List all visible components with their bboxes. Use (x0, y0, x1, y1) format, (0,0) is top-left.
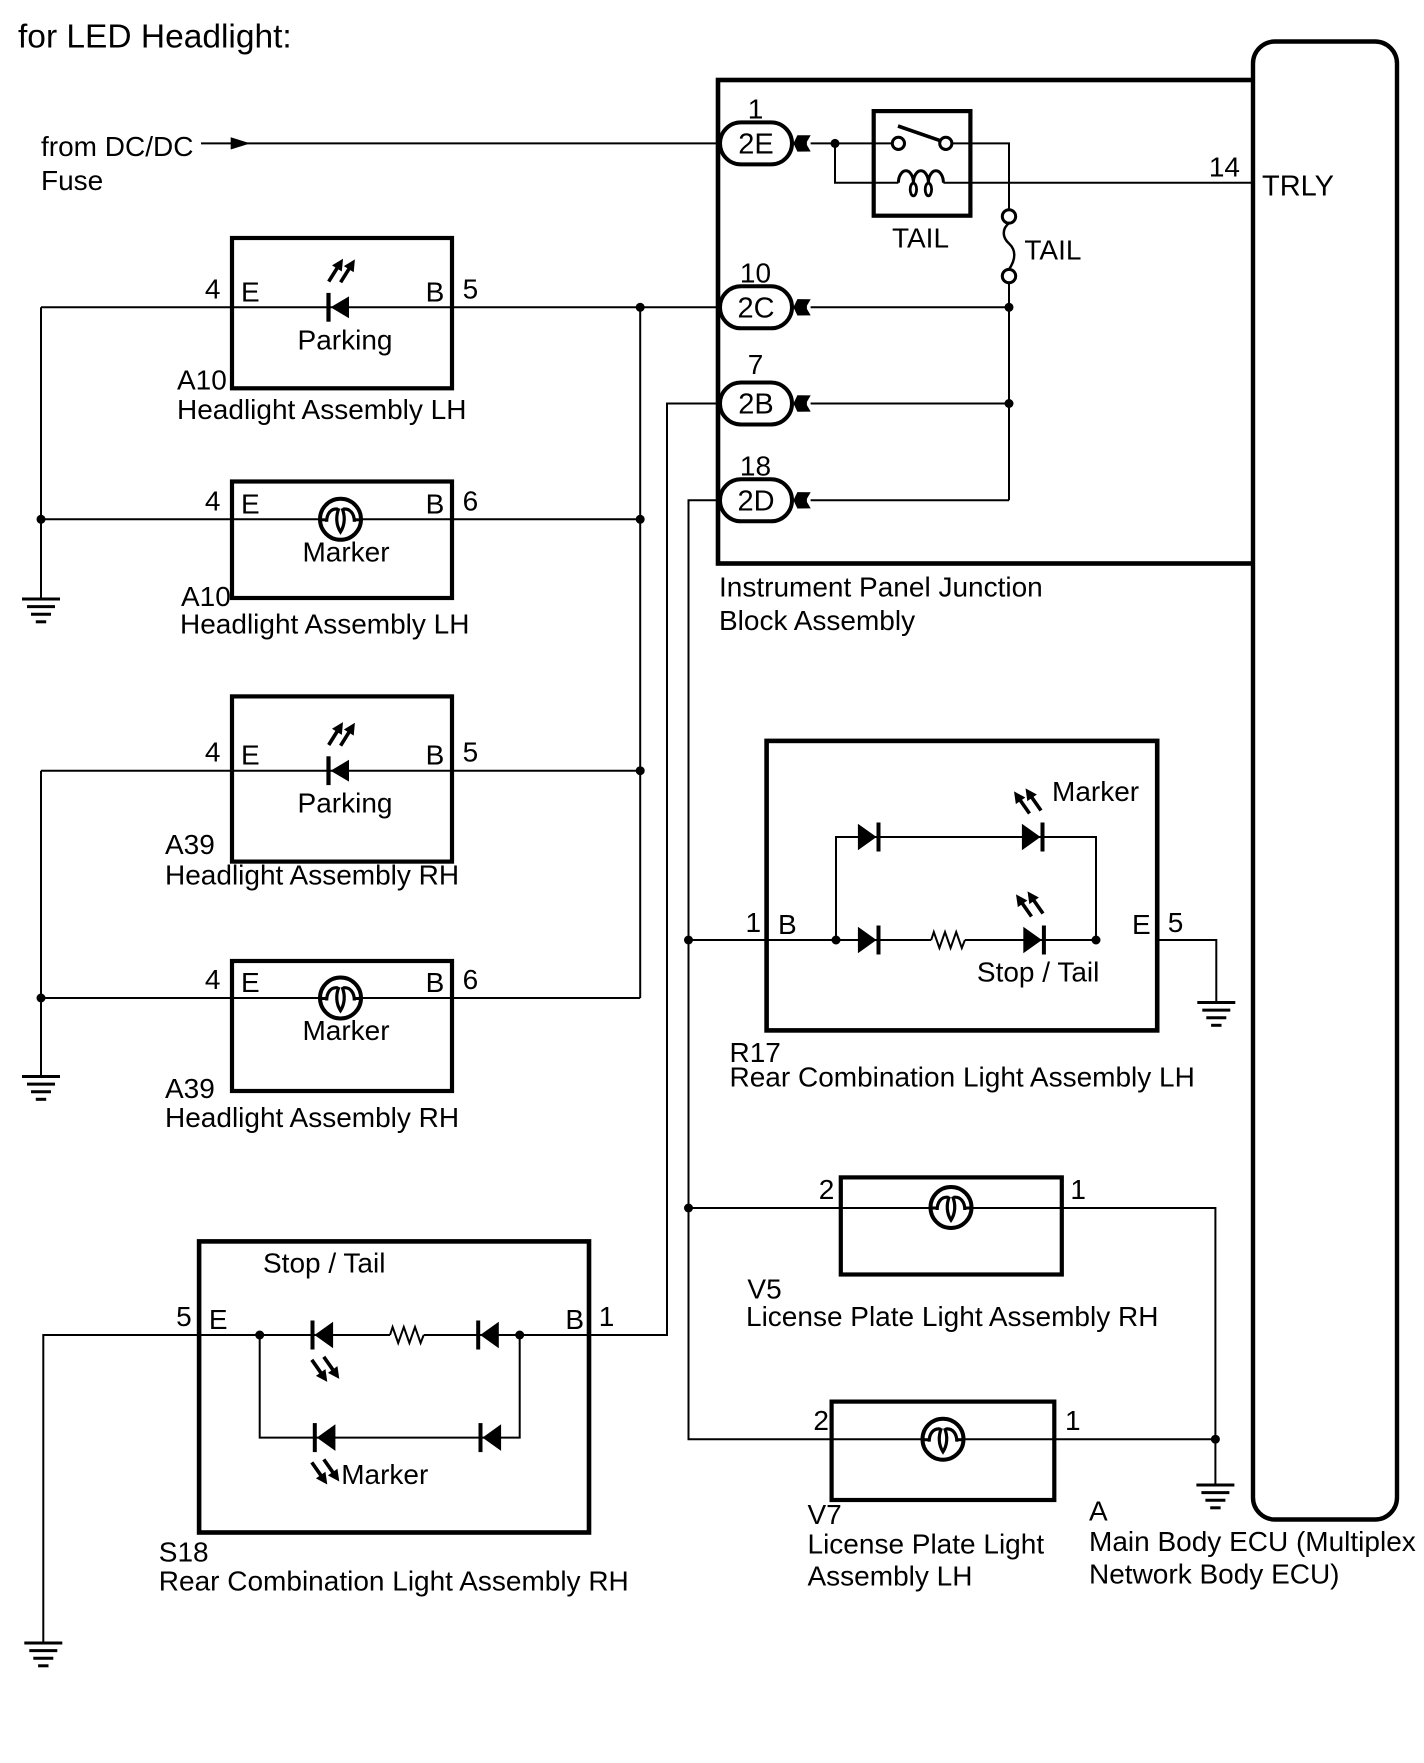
relay switch blade (898, 126, 940, 141)
svg-text:Parking: Parking (298, 788, 393, 819)
svg-text:2: 2 (819, 1174, 835, 1205)
headlight assembly LH parking box A10 (232, 238, 452, 388)
wire V7 ground stem (1214, 1439, 1216, 1484)
svg-text:E: E (241, 967, 260, 998)
svg-text:4: 4 (205, 737, 221, 768)
wire R17 B pin (689, 939, 837, 941)
wire R17 E to ground (1157, 940, 1216, 1002)
wire 2E to relay (811, 142, 893, 144)
wire V7 internal right (962, 1438, 1054, 1440)
svg-text:A39: A39 (165, 829, 215, 860)
svg-text:Headlight Assembly RH: Headlight Assembly RH (165, 1102, 459, 1133)
svg-text:Marker: Marker (302, 536, 389, 567)
wire S18 stop tail row right (424, 1334, 589, 1336)
wire marker LH row right (360, 518, 641, 520)
junction dot parking RH bus (636, 766, 645, 775)
svg-text:E: E (1132, 909, 1151, 940)
connector 2C pin 10 (720, 257, 811, 328)
svg-text:TAIL: TAIL (1024, 235, 1081, 266)
wire V7 pin 1 (1054, 1438, 1215, 1440)
junction dot V5 wire (684, 1204, 693, 1213)
wire V5 pin 2 (689, 1207, 841, 1209)
svg-text:18: 18 (740, 450, 771, 481)
svg-text:Block Assembly: Block Assembly (719, 605, 915, 636)
headlight assembly RH parking box A39 (232, 696, 452, 861)
wire V5 internal left (841, 1207, 932, 1209)
diode S18 stop left (311, 1321, 334, 1350)
diode R17 marker (858, 823, 881, 852)
svg-text:14: 14 (1209, 152, 1240, 183)
svg-text:Stop / Tail: Stop / Tail (263, 1248, 385, 1279)
wire 2B internal (811, 403, 1009, 405)
svg-text:5: 5 (176, 1301, 192, 1332)
wire relay switch to fuse (952, 143, 1009, 209)
bulb V7 (923, 1419, 964, 1460)
connector 2D pin 18 (720, 450, 811, 521)
svg-text:A: A (1089, 1496, 1108, 1527)
junction dot marker RH ground (37, 994, 46, 1003)
LED parking LH (326, 293, 349, 322)
wire 2D down to R17 V5 V7 (689, 500, 832, 1439)
svg-text:4: 4 (205, 485, 221, 516)
svg-text:5: 5 (463, 737, 479, 768)
svg-text:6: 6 (463, 964, 479, 995)
svg-text:1: 1 (746, 907, 762, 938)
svg-text:V7: V7 (808, 1499, 842, 1530)
svg-text:Main Body ECU (Multiplex: Main Body ECU (Multiplex (1089, 1526, 1416, 1557)
junction dot 2B bus (1005, 399, 1014, 408)
rear combination light assembly RH box S18 (199, 1241, 589, 1532)
junction dot R17 right (1092, 936, 1101, 945)
relay switch contact left (892, 137, 904, 149)
svg-text:1: 1 (1070, 1174, 1086, 1205)
svg-text:2D: 2D (737, 485, 774, 517)
instrument panel junction block box (718, 80, 1254, 564)
svg-text:Rear Combination Light Assembl: Rear Combination Light Assembly RH (159, 1565, 629, 1596)
license plate light assembly RH box V5 (841, 1177, 1062, 1274)
ground symbol S18 (24, 1643, 62, 1666)
svg-text:B: B (426, 740, 445, 771)
svg-text:4: 4 (205, 273, 221, 304)
wire marker RH row right (360, 997, 641, 999)
LED R17 stop tail emission arrows (1011, 888, 1047, 920)
svg-text:10: 10 (740, 257, 771, 288)
LED R17 stop tail (1023, 926, 1046, 955)
junction dot at 2E branch (831, 139, 840, 148)
svg-text:Headlight Assembly LH: Headlight Assembly LH (180, 609, 469, 640)
svg-text:Marker: Marker (302, 1015, 389, 1046)
svg-text:2C: 2C (737, 292, 774, 324)
resistor R17 (931, 932, 965, 948)
ground symbol V7 (1196, 1485, 1234, 1508)
svg-text:Rear Combination Light Assembl: Rear Combination Light Assembly LH (730, 1062, 1195, 1093)
LED R17 marker emission arrows (1009, 785, 1045, 817)
wire parking RH row to bus (41, 770, 640, 772)
relay switch contact right (940, 137, 952, 149)
LED parking LH emission arrows (324, 256, 360, 286)
junction dot parking LH bus (636, 303, 645, 312)
arrowhead on DC/DC wire (231, 137, 251, 149)
junction dot R17 left (832, 936, 841, 945)
svg-text:TAIL: TAIL (892, 222, 949, 253)
wire relay coil to TRLY (943, 182, 1253, 184)
headlight assembly RH marker box A39 (232, 961, 452, 1091)
label R17 (730, 1037, 1195, 1093)
junction dot R17 B wire (684, 936, 693, 945)
diode S18 stop right (476, 1321, 499, 1350)
connector 2B pin 7 (720, 349, 811, 425)
svg-text:Marker: Marker (1052, 776, 1139, 807)
connector 2E pin 1 (720, 93, 811, 164)
LED S18 marker emission arrows (307, 1456, 344, 1488)
ground symbol RH headlights (22, 1077, 60, 1100)
relay TAIL box (874, 111, 971, 216)
resistor S18 (390, 1327, 424, 1343)
svg-text:E: E (209, 1304, 228, 1335)
wire S18 stop tail row left (199, 1334, 390, 1336)
bulb marker RH (320, 978, 361, 1019)
wire parking LH row to 2C (41, 306, 716, 308)
LED parking RH emission arrows (324, 719, 360, 749)
svg-text:A10: A10 (177, 365, 227, 396)
svg-text:B: B (426, 967, 445, 998)
LED parking RH (326, 756, 349, 785)
junction dot V7 ground (1211, 1435, 1220, 1444)
label A Main Body ECU (1089, 1496, 1416, 1590)
bulb marker LH (320, 499, 361, 540)
svg-text:Headlight Assembly RH: Headlight Assembly RH (165, 860, 459, 891)
svg-text:Marker: Marker (341, 1459, 428, 1490)
wire S18 E to ground (43, 1335, 199, 1642)
label from DC/DC Fuse (41, 131, 193, 196)
svg-text:S18: S18 (159, 1537, 209, 1568)
svg-text:License Plate Light: License Plate Light (808, 1529, 1045, 1560)
svg-text:Fuse: Fuse (41, 165, 103, 196)
junction dot S18 left (255, 1331, 264, 1340)
svg-text:1: 1 (599, 1301, 615, 1332)
svg-text:A39: A39 (165, 1073, 215, 1104)
wire R17 stop tail row left (836, 939, 931, 941)
ground symbol LH headlights (22, 599, 60, 622)
diode S18 marker right (479, 1423, 502, 1452)
svg-text:V5: V5 (747, 1273, 781, 1304)
wire V5 pin 1 down (1062, 1208, 1216, 1439)
fuse TAIL (1002, 210, 1015, 283)
wire S18 marker branch (260, 1335, 520, 1438)
wire V5 internal right (970, 1207, 1062, 1209)
svg-text:from DC/DC: from DC/DC (41, 131, 193, 162)
junction dot marker LH bus (636, 515, 645, 524)
license plate light assembly LH box V7 (832, 1402, 1055, 1500)
LED S18 stop emission arrows (307, 1353, 344, 1385)
ground symbol R17 (1197, 1003, 1235, 1026)
diode R17 stop left (858, 926, 881, 955)
wire from DC/DC fuse to 2E (201, 142, 716, 144)
svg-text:B: B (426, 276, 445, 307)
svg-text:E: E (241, 488, 260, 519)
svg-text:5: 5 (463, 273, 479, 304)
label S18 (159, 1537, 629, 1597)
headlight assembly LH marker box A10 (232, 482, 452, 599)
label V5 (746, 1273, 1158, 1332)
svg-text:Assembly LH: Assembly LH (808, 1561, 973, 1592)
label V7 (808, 1499, 1045, 1592)
svg-text:Parking: Parking (298, 324, 393, 355)
wire 2B to S18 B (589, 404, 716, 1336)
wire 2D internal (811, 499, 1009, 501)
label Instrument Panel Junction Block Assembly (719, 572, 1043, 637)
junction dot marker LH ground (37, 515, 46, 524)
wire RH ground rail (40, 771, 42, 1077)
svg-text:Stop / Tail: Stop / Tail (977, 957, 1099, 988)
junction dot S18 right (515, 1331, 524, 1340)
bus wire down left column (639, 307, 641, 998)
wire marker LH row left (41, 518, 322, 520)
svg-text:B: B (565, 1304, 584, 1335)
svg-text:4: 4 (205, 964, 221, 995)
svg-text:2E: 2E (738, 128, 773, 160)
junction dot 2C bus (1005, 303, 1014, 312)
wire 2C internal (811, 306, 1009, 308)
wire branch down to relay coil (835, 143, 898, 182)
svg-text:B: B (778, 909, 797, 940)
svg-text:1: 1 (748, 93, 764, 124)
wire LH ground rail (40, 307, 42, 599)
svg-text:TRLY: TRLY (1262, 170, 1334, 202)
svg-text:E: E (241, 276, 260, 307)
wire fuse to junction bus (1008, 283, 1010, 501)
LED R17 marker (1022, 823, 1045, 852)
svg-text:7: 7 (748, 349, 764, 380)
wire R17 marker branch (836, 837, 1096, 940)
rear combination light assembly LH box R17 (767, 741, 1158, 1031)
svg-text:B: B (426, 488, 445, 519)
svg-text:2: 2 (813, 1405, 829, 1436)
relay coil (898, 171, 943, 196)
svg-text:6: 6 (463, 485, 479, 516)
svg-text:E: E (241, 740, 260, 771)
svg-text:License Plate Light Assembly R: License Plate Light Assembly RH (746, 1301, 1158, 1332)
main body ECU box (1253, 42, 1397, 1520)
svg-text:Headlight Assembly LH: Headlight Assembly LH (177, 394, 466, 425)
svg-text:2B: 2B (738, 389, 773, 421)
wire marker RH row left (41, 997, 322, 999)
svg-text:A10: A10 (181, 581, 231, 612)
svg-text:5: 5 (1168, 907, 1184, 938)
wire V7 internal left (832, 1438, 924, 1440)
bulb V5 (931, 1187, 972, 1228)
svg-text:Instrument Panel Junction: Instrument Panel Junction (719, 572, 1043, 603)
wire R17 stop tail row right (965, 939, 1096, 941)
diode S18 marker left (313, 1423, 336, 1452)
svg-text:Network Body ECU): Network Body ECU) (1089, 1559, 1340, 1590)
svg-text:for LED Headlight:: for LED Headlight: (18, 19, 292, 56)
svg-text:1: 1 (1065, 1405, 1081, 1436)
